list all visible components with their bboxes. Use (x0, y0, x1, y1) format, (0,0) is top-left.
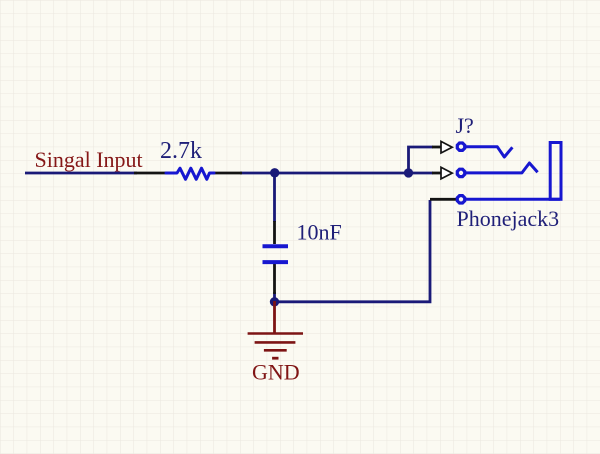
svg-text:Phonejack3: Phonejack3 (457, 206, 560, 231)
junction at capacitor tap (270, 168, 279, 177)
ground bar 1 (248, 332, 303, 335)
jack J? pin 2 pad octagon (457, 169, 464, 176)
jack J? sleeve body rectangle (550, 143, 561, 200)
resistor R right pin (213, 172, 242, 175)
capacitor C lower pin (273, 264, 276, 294)
svg-text:GND: GND (252, 360, 300, 385)
wire main input net (25, 172, 137, 175)
capacitor C top plate (263, 244, 289, 248)
wire capacitor bottom to ground junction (273, 292, 276, 302)
junction at jack branch (404, 168, 413, 177)
jack J? pin 2 lead (432, 172, 441, 175)
ground bar 2 (255, 341, 296, 344)
jack J? pin 1 lead (432, 146, 441, 149)
ground bar 3 (264, 349, 287, 352)
wire capacitor top lead (273, 173, 276, 222)
wire from resistor to capacitor junction and on to jack pin 2 (240, 172, 433, 175)
jack J? ring contact (466, 163, 538, 173)
svg-text:Singal Input: Singal Input (35, 147, 143, 172)
jack J? pin 1 input triangle (441, 141, 452, 153)
svg-text:J?: J? (456, 113, 474, 138)
capacitor C bottom plate (263, 260, 289, 264)
resistor R left pin (134, 172, 167, 175)
wire bottom return from jack pin 3 (275, 200, 431, 302)
jack J? pin 3 pad octagon (457, 196, 464, 203)
jack J? pin 1 pad octagon (457, 143, 464, 150)
resistor R body zigzag (166, 168, 214, 179)
svg-text:2.7k: 2.7k (160, 138, 202, 164)
svg-text:10nF: 10nF (297, 220, 342, 245)
ground bar 4 (272, 357, 278, 360)
wire branch up to jack pin 1 (409, 147, 434, 173)
jack J? sleeve wire (466, 198, 560, 201)
capacitor C upper pin (273, 221, 276, 244)
junction at ground node (270, 297, 279, 306)
jack J? pin 3 lead (430, 198, 456, 201)
ground lead (273, 301, 276, 334)
jack J? tip contact (466, 147, 512, 157)
jack J? pin 2 input triangle (441, 167, 452, 179)
